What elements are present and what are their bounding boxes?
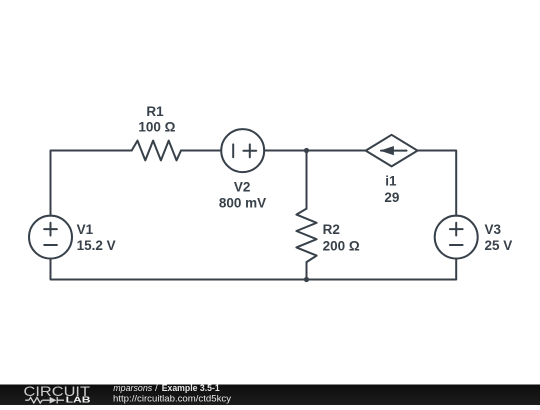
svg-text:25 V: 25 V: [485, 238, 513, 253]
svg-text:i1: i1: [385, 174, 397, 189]
svg-text:200 Ω: 200 Ω: [323, 238, 360, 253]
svg-text:/: /: [155, 383, 158, 394]
svg-text:800 mV: 800 mV: [219, 196, 266, 211]
svg-text:15.2 V: 15.2 V: [77, 238, 116, 253]
svg-text:Example 3.5-1: Example 3.5-1: [162, 383, 221, 394]
svg-text:R2: R2: [323, 222, 340, 237]
svg-text:100 Ω: 100 Ω: [138, 119, 175, 134]
svg-text:mparsons: mparsons: [113, 383, 152, 394]
svg-text:29: 29: [384, 190, 399, 205]
svg-text:LAB: LAB: [66, 395, 92, 404]
svg-text:V1: V1: [77, 222, 94, 237]
svg-text:http://circuitlab.com/ctd5kcy: http://circuitlab.com/ctd5kcy: [113, 394, 231, 405]
svg-text:V2: V2: [234, 179, 251, 194]
svg-text:V3: V3: [485, 222, 502, 237]
svg-text:R1: R1: [146, 104, 164, 119]
